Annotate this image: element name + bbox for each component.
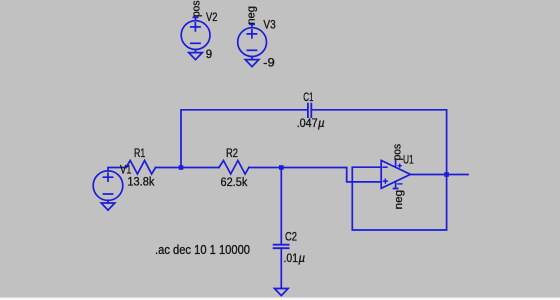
svg-text:pos: pos: [190, 0, 202, 17]
op-amp V- minus mark: [398, 183, 402, 185]
capacitor C1: [308, 104, 311, 117]
op-amp non-inverting input mark: [384, 179, 388, 183]
op-amp inverting input mark: [383, 166, 387, 168]
svg-text:µ: µ: [318, 118, 325, 130]
svg-text:.047: .047: [297, 118, 318, 130]
bottom window edge strip: [0, 298, 560, 300]
wire C2 to ground: [280, 248, 282, 288]
svg-text:-9: -9: [263, 57, 275, 69]
svg-text:R2: R2: [226, 148, 238, 160]
svg-text:R1: R1: [134, 148, 145, 160]
wire node B down to C2: [280, 168, 282, 245]
op-amp V+ plus mark: [398, 164, 401, 167]
ground below V3: [245, 60, 259, 67]
svg-text:V3: V3: [263, 20, 275, 32]
resistor R1: [126, 161, 156, 175]
capacitor C2: [274, 245, 289, 249]
ground below C2: [275, 289, 289, 296]
svg-text:pos: pos: [391, 143, 403, 160]
svg-text:V1: V1: [120, 164, 131, 176]
op-amp V- pin: [394, 182, 398, 189]
svg-text:.ac dec 10 1 10000: .ac dec 10 1 10000: [155, 243, 250, 257]
wire C1 to right corner down to output node: [312, 110, 447, 172]
voltage source V1: [93, 171, 123, 203]
ground below V2: [189, 53, 203, 60]
wire feedback loop output down, left, up to -input: [352, 167, 446, 230]
svg-text:62.5k: 62.5k: [221, 177, 248, 189]
svg-text:C2: C2: [285, 232, 297, 244]
op-amp U1 triangle: [381, 160, 410, 188]
wire R1 to node A: [156, 167, 181, 169]
svg-text:neg: neg: [393, 190, 405, 210]
svg-text:.01: .01: [284, 253, 299, 265]
voltage source V2: [181, 17, 210, 52]
junction node A: [179, 165, 184, 170]
ground below V1: [101, 203, 115, 210]
svg-text:neg: neg: [245, 6, 257, 25]
wire node A to R2: [181, 167, 219, 169]
wire node A up and to C1: [181, 110, 307, 168]
junction output node: [444, 172, 449, 177]
voltage source V3: [238, 24, 267, 59]
svg-text:C1: C1: [303, 92, 313, 104]
svg-text:µ: µ: [299, 253, 306, 265]
op-amp V+ pin: [395, 160, 397, 168]
wire op-amp output: [410, 174, 468, 176]
wire V1 top to R1: [108, 168, 126, 171]
wire node B to op-amp +input with jog: [281, 168, 381, 182]
junction node B: [279, 165, 284, 170]
wire R2 to node B: [249, 167, 281, 169]
svg-text:9: 9: [206, 49, 212, 61]
resistor R2: [219, 161, 249, 175]
svg-text:U1: U1: [403, 155, 414, 167]
svg-text:13.8k: 13.8k: [127, 177, 154, 189]
svg-text:V2: V2: [206, 12, 217, 24]
